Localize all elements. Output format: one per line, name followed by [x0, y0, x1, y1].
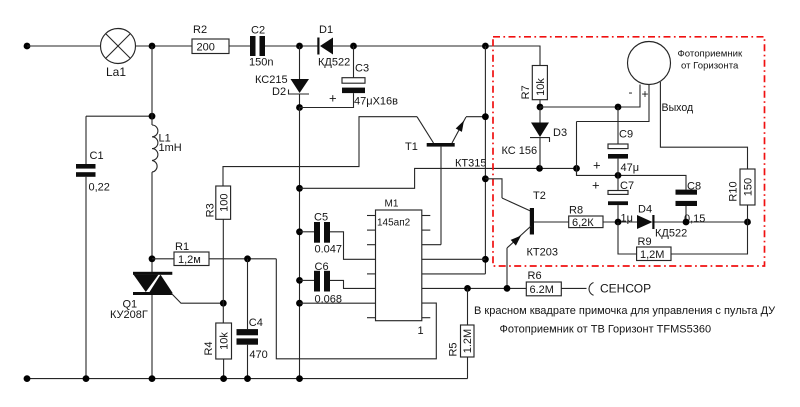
wire R1 left [152, 258, 174, 260]
svg-text:R6: R6 [528, 270, 542, 282]
svg-text:C6: C6 [315, 261, 329, 273]
capacitor C8 [676, 190, 698, 222]
svg-text:КД522: КД522 [655, 228, 687, 240]
svg-text:200: 200 [197, 42, 215, 54]
svg-text:R5: R5 [448, 342, 460, 356]
wire D4 to R10 [655, 221, 748, 223]
svg-text:D1: D1 [319, 24, 333, 36]
svg-text:T1: T1 [405, 141, 418, 153]
svg-text:Фотоприемник от ТВ Горизонт T: Фотоприемник от ТВ Горизонт TFMS5360 [500, 324, 712, 336]
node IC pin tap [482, 256, 489, 263]
capacitor C3 electrolytic [300, 46, 366, 108]
triac Q1 [133, 272, 172, 295]
svg-text:КУ208Г: КУ208Г [110, 309, 148, 321]
resistor R7 [532, 66, 547, 100]
svg-text:от Горизонта: от Горизонта [681, 61, 739, 72]
wire R3 bottom to R4 [222, 219, 224, 323]
node C3 tap [350, 43, 357, 50]
wire line B [300, 168, 577, 188]
capacitor C4 [237, 259, 259, 379]
svg-text:1mH: 1mH [159, 142, 182, 154]
node T2 collector tap [482, 175, 489, 182]
wire R1 loop to IC pin [276, 259, 436, 359]
node rail C4 [244, 375, 251, 382]
svg-text:C7: C7 [620, 180, 634, 192]
svg-text:R9: R9 [638, 236, 652, 248]
node rail left terminal [24, 375, 31, 382]
wire R2 to C2 [229, 45, 250, 47]
node C9 bottom junction [615, 172, 622, 179]
node C6 tap [296, 277, 303, 284]
svg-text:100: 100 [218, 194, 230, 212]
resistor R10 [740, 169, 755, 205]
node C9 top tap [615, 104, 622, 111]
node photo plus branch [573, 165, 580, 172]
node lamp/L1/R2 junction [149, 43, 156, 50]
svg-text:150n: 150n [249, 57, 273, 69]
wire R3 top [223, 117, 417, 186]
wire R7 bottom [539, 100, 541, 107]
node gate/R3/R4 junction [220, 300, 227, 307]
wire bottom rail [27, 378, 468, 380]
svg-text:R4: R4 [203, 341, 215, 355]
wire T1 base to IC [422, 244, 441, 246]
capacitor C6 [300, 271, 376, 292]
svg-text:C8: C8 [687, 181, 701, 193]
svg-text:КД522: КД522 [318, 57, 350, 69]
node T2 emitter tap [504, 285, 511, 292]
svg-text:0,22: 0,22 [89, 182, 110, 194]
svg-text:C1: C1 [90, 150, 104, 162]
svg-text:1μ: 1μ [621, 213, 633, 225]
transistor T2 [485, 179, 534, 289]
svg-text:1: 1 [418, 325, 424, 337]
svg-text:150: 150 [743, 178, 755, 196]
resistor R6 [526, 282, 561, 296]
wire R9 right [671, 222, 748, 254]
wire R8 to D4 [603, 221, 637, 223]
node R5 tap [464, 285, 471, 292]
svg-text:D3: D3 [553, 127, 567, 139]
svg-text:+: + [593, 158, 601, 173]
node C7 bottom junction [615, 219, 622, 226]
capacitor C7 electrolytic [608, 175, 628, 222]
svg-text:КТ315: КТ315 [455, 158, 486, 170]
wire triac anode to rail [151, 295, 153, 379]
svg-text:C3: C3 [355, 63, 369, 75]
wire terminal to lamp [27, 45, 101, 47]
node rail C1 [83, 375, 90, 382]
node D3 bottom [536, 165, 543, 172]
capacitor C9 electrolytic [608, 107, 628, 175]
wire IC pin y259 [422, 258, 486, 260]
node T1 emitter [482, 113, 489, 120]
svg-text:La1: La1 [106, 65, 126, 79]
svg-text:C9: C9 [619, 129, 633, 141]
svg-text:-: - [629, 85, 633, 99]
svg-text:СЕНСОР: СЕНСОР [600, 282, 651, 296]
node C8 bottom [683, 219, 690, 226]
node rail x299 [296, 375, 303, 382]
wire sensor line [422, 287, 527, 289]
svg-text:D4: D4 [638, 204, 652, 216]
wire T1 emitter [466, 116, 485, 118]
wire emitter vertical x485 [484, 46, 486, 274]
wire R9 left [618, 222, 637, 254]
wire C1 top [86, 115, 152, 117]
svg-text:47μ: 47μ [621, 162, 640, 174]
svg-text:R8: R8 [569, 205, 583, 217]
resistor R8 [569, 216, 603, 228]
resistor R5 [461, 288, 475, 378]
wire R4 bottom [223, 359, 225, 379]
wire D2 cathode to node [299, 94, 301, 108]
wire main vertical x299 [299, 108, 301, 379]
svg-text:145ап2: 145ап2 [377, 218, 411, 229]
svg-text:1,2М: 1,2М [640, 249, 664, 261]
svg-text:47μХ16в: 47μХ16в [354, 96, 398, 108]
node D2 tap [296, 43, 303, 50]
inductor L1 [152, 125, 158, 172]
node IC pin wire tap [296, 300, 303, 307]
svg-text:R7: R7 [520, 85, 532, 99]
lamp La1 [101, 29, 136, 64]
svg-text:470: 470 [249, 349, 267, 361]
capacitor C2 [250, 36, 265, 56]
wire IC pin y273 [422, 273, 486, 275]
wire R1 right [209, 258, 276, 260]
svg-text:1,2м: 1,2м [178, 254, 201, 266]
zener D3 [530, 107, 550, 168]
sensor contact arc [589, 283, 594, 296]
IC pins right stubs [422, 216, 431, 318]
svg-text:10k: 10k [219, 332, 231, 350]
node line B tap [296, 185, 303, 192]
svg-text:КС215: КС215 [255, 74, 288, 86]
wire C2 to D1 [265, 45, 318, 47]
svg-text:R1: R1 [175, 241, 189, 253]
resistor R9 [637, 247, 671, 261]
svg-text:C4: C4 [249, 317, 263, 329]
node R1 tap [149, 255, 156, 262]
diode D1 [317, 38, 333, 55]
node left AC terminal [24, 43, 31, 50]
svg-text:+: + [329, 91, 337, 106]
wire photo plus branch vertical [576, 122, 578, 176]
wire triac gate [172, 294, 224, 304]
svg-text:10k: 10k [535, 78, 547, 96]
wire L1 to triac [151, 172, 153, 272]
wire IC pin y303 left [300, 302, 376, 304]
svg-text:R3: R3 [204, 203, 216, 217]
resistor R3 [216, 186, 231, 219]
svg-text:D2: D2 [272, 86, 286, 98]
node T1 emitter rail tap [482, 43, 489, 50]
svg-text:C2: C2 [251, 25, 265, 37]
svg-text:+: + [592, 178, 600, 193]
svg-text:T2: T2 [533, 190, 546, 202]
resistor R2 [192, 39, 229, 54]
svg-text:R10: R10 [728, 181, 740, 201]
diode D4 [637, 215, 655, 229]
svg-text:M1: M1 [385, 199, 399, 210]
IC pins left stubs [367, 216, 376, 318]
svg-text:Выход: Выход [662, 102, 694, 114]
svg-text:+: + [642, 87, 649, 101]
svg-text:6.2M: 6.2M [530, 284, 554, 296]
wire photo plus lead [577, 85, 650, 122]
svg-text:КС 156: КС 156 [502, 145, 538, 157]
op-amp U1 IC M1 box [376, 210, 422, 321]
svg-text:КТ203: КТ203 [527, 247, 558, 259]
node L1 line C1 tap [149, 113, 156, 120]
svg-text:1.2M: 1.2M [462, 329, 474, 353]
svg-text:C5: C5 [314, 212, 328, 224]
svg-text:В красном квадрате примочка дл: В красном квадрате примочка для управлен… [474, 305, 776, 317]
wire R6 to sensor [561, 287, 586, 289]
wire D1 to R7 corner [333, 46, 540, 66]
node D2/C3 junction [296, 104, 303, 111]
wire lamp to R2 [136, 45, 193, 47]
wire T2 base to R8 [534, 221, 569, 223]
wire D2 anode [299, 46, 301, 79]
capacitor C1 [76, 116, 96, 378]
svg-text:6,2К: 6,2К [572, 217, 594, 229]
svg-text:Фотоприемник: Фотоприемник [678, 49, 744, 60]
svg-text:0.047: 0.047 [315, 244, 343, 256]
node R7/D3 junction [537, 104, 544, 111]
resistor R4 [216, 323, 232, 359]
wire photo out lead [660, 82, 747, 169]
wire lamp junction down to L1 [151, 46, 153, 125]
capacitor C5 [300, 222, 376, 259]
wire jog to C8 top [577, 168, 687, 189]
wire y107 to photo minus [540, 85, 640, 108]
node C4 tap [244, 255, 251, 262]
wire R10 bottom [747, 205, 749, 222]
node rail Q1 [149, 375, 156, 382]
node C5 tap [296, 228, 303, 235]
transistor T1 [417, 117, 466, 245]
svg-text:R2: R2 [193, 24, 207, 36]
node R10 bottom [744, 219, 751, 226]
resistor R1 [174, 252, 209, 266]
zener D2 [288, 79, 309, 94]
photodetector circle [628, 42, 671, 85]
red frame remote control box [493, 37, 765, 266]
node rail R4 [220, 375, 227, 382]
